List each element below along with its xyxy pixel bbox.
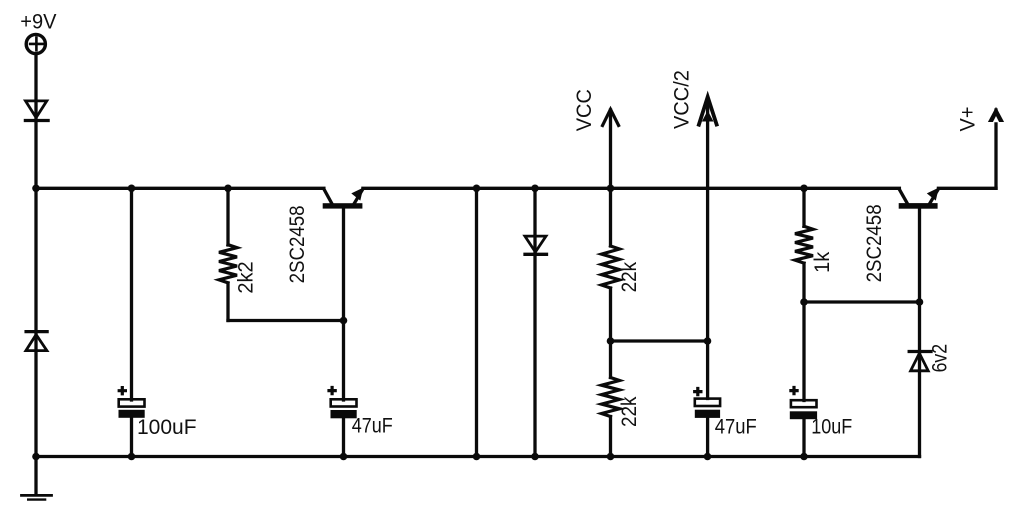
svg-text:6v2: 6v2 [929,344,952,373]
svg-text:22k: 22k [618,261,641,292]
svg-text:2k2: 2k2 [235,261,258,293]
svg-text:2SC2458: 2SC2458 [286,205,309,283]
svg-text:VCC: VCC [573,89,596,131]
svg-text:V+: V+ [957,107,980,132]
svg-text:47uF: 47uF [352,414,393,437]
svg-text:2SC2458: 2SC2458 [863,204,886,282]
svg-text:1k: 1k [811,251,834,273]
svg-text:22k: 22k [618,396,641,427]
svg-text:100uF: 100uF [137,416,197,439]
svg-text:10uF: 10uF [811,416,852,439]
svg-text:47uF: 47uF [715,416,757,439]
svg-text:+9V: +9V [20,11,56,34]
svg-text:VCC/2: VCC/2 [670,70,693,129]
